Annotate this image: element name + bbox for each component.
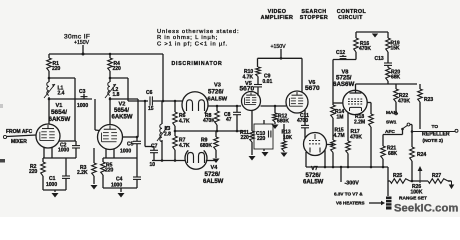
svg-text:V8 HEATERS: V8 HEATERS [336, 201, 365, 206]
svg-text:4.7K: 4.7K [243, 75, 254, 81]
svg-text:R24: R24 [417, 152, 426, 158]
svg-text:68K: 68K [391, 75, 401, 81]
svg-text:CIRCUIT: CIRCUIT [338, 15, 363, 21]
svg-text:220: 220 [257, 136, 266, 142]
svg-text:R27: R27 [432, 173, 441, 179]
svg-text:RANGE SET: RANGE SET [399, 196, 427, 202]
svg-text:5726/: 5726/ [306, 173, 321, 179]
svg-text:15K: 15K [391, 46, 401, 52]
svg-text:100K: 100K [411, 190, 423, 196]
svg-text:4.7M: 4.7M [334, 133, 345, 139]
svg-text:6AL5W: 6AL5W [303, 179, 324, 185]
svg-text:(NOTE 2): (NOTE 2) [423, 138, 444, 144]
svg-text:C >1 in pf; C<1 in µf.: C >1 in pf; C<1 in µf. [157, 41, 228, 47]
svg-text:DISCRIMINATOR: DISCRIMINATOR [172, 61, 223, 67]
svg-text:1000: 1000 [77, 103, 88, 109]
svg-text:220: 220 [241, 135, 250, 141]
svg-text:R23: R23 [424, 97, 433, 103]
svg-text:C5: C5 [127, 142, 134, 148]
svg-text:220: 220 [113, 66, 122, 72]
svg-text:1M: 1M [337, 115, 344, 121]
svg-text:4700: 4700 [297, 118, 308, 124]
svg-text:MAN.: MAN. [386, 110, 398, 116]
svg-text:1.8: 1.8 [113, 92, 120, 98]
svg-text:470K: 470K [359, 46, 371, 52]
svg-text:V2: V2 [119, 102, 126, 108]
svg-text:CONTROL: CONTROL [337, 9, 367, 15]
svg-text:SW1: SW1 [386, 120, 397, 126]
svg-text:1000: 1000 [58, 148, 69, 154]
svg-text:6AL5W: 6AL5W [203, 179, 224, 185]
svg-text:6AS6W: 6AS6W [333, 81, 354, 88]
svg-text:C13: C13 [375, 56, 384, 62]
svg-text:AMPLIFIER: AMPLIFIER [261, 15, 294, 21]
svg-text:1000: 1000 [46, 182, 57, 188]
svg-text:220: 220 [52, 66, 61, 72]
svg-text:470K: 470K [398, 99, 410, 105]
svg-text:4.7K: 4.7K [179, 119, 190, 125]
svg-text:FROM AFC: FROM AFC [6, 129, 33, 135]
svg-text:TO: TO [432, 124, 439, 130]
svg-text:+150V: +150V [271, 44, 287, 50]
svg-text:C6: C6 [146, 90, 153, 96]
svg-text:2.4: 2.4 [58, 91, 65, 97]
svg-text:5726/: 5726/ [208, 89, 224, 96]
svg-text:REPELLER: REPELLER [422, 131, 450, 137]
svg-text:6AK5W: 6AK5W [112, 114, 133, 120]
svg-text:SeekIC.com: SeekIC.com [394, 203, 458, 215]
svg-text:6.3V TO V7 &: 6.3V TO V7 & [334, 192, 363, 197]
svg-text:4.7K: 4.7K [179, 143, 190, 149]
svg-text:15: 15 [148, 106, 154, 112]
svg-text:220: 220 [29, 169, 38, 175]
svg-text:5726/: 5726/ [205, 171, 221, 178]
svg-text:C3: C3 [79, 89, 86, 95]
svg-text:VIDEO: VIDEO [268, 9, 287, 15]
svg-text:47: 47 [226, 117, 232, 123]
svg-text:6AK5W: 6AK5W [49, 116, 71, 123]
svg-text:680K: 680K [277, 119, 289, 125]
svg-text:10: 10 [150, 162, 156, 168]
svg-text:-300V: -300V [345, 181, 360, 187]
svg-text:2.2M: 2.2M [354, 120, 365, 126]
svg-text:2.8: 2.8 [164, 132, 171, 138]
svg-text:470K: 470K [203, 118, 215, 124]
svg-text:1000: 1000 [120, 149, 131, 155]
svg-text:2.2K: 2.2K [77, 170, 88, 176]
svg-text:470K: 470K [350, 135, 362, 141]
svg-text:Unless otherwise stated:: Unless otherwise stated: [157, 29, 239, 35]
svg-text:10K: 10K [283, 135, 293, 141]
svg-text:STOPPER: STOPPER [300, 15, 328, 21]
svg-text:0.01: 0.01 [263, 79, 273, 85]
svg-text:SEARCH: SEARCH [301, 9, 326, 15]
svg-text:5670: 5670 [240, 86, 255, 93]
svg-text:6AL5W: 6AL5W [208, 97, 228, 103]
svg-text:680K: 680K [200, 143, 212, 149]
svg-text:68K: 68K [388, 151, 398, 157]
svg-text:5670: 5670 [305, 85, 320, 92]
svg-text:AFC: AFC [385, 129, 395, 135]
svg-text:5654/: 5654/ [114, 108, 129, 114]
svg-text:MIXER: MIXER [11, 139, 27, 145]
svg-text:R in ohms; L inµh;: R in ohms; L inµh; [157, 35, 218, 41]
svg-text:220: 220 [105, 168, 114, 174]
svg-text:C12: C12 [336, 50, 345, 56]
svg-text:+150V: +150V [74, 40, 90, 46]
svg-text:R25: R25 [393, 173, 402, 179]
svg-text:C7: C7 [151, 144, 158, 150]
